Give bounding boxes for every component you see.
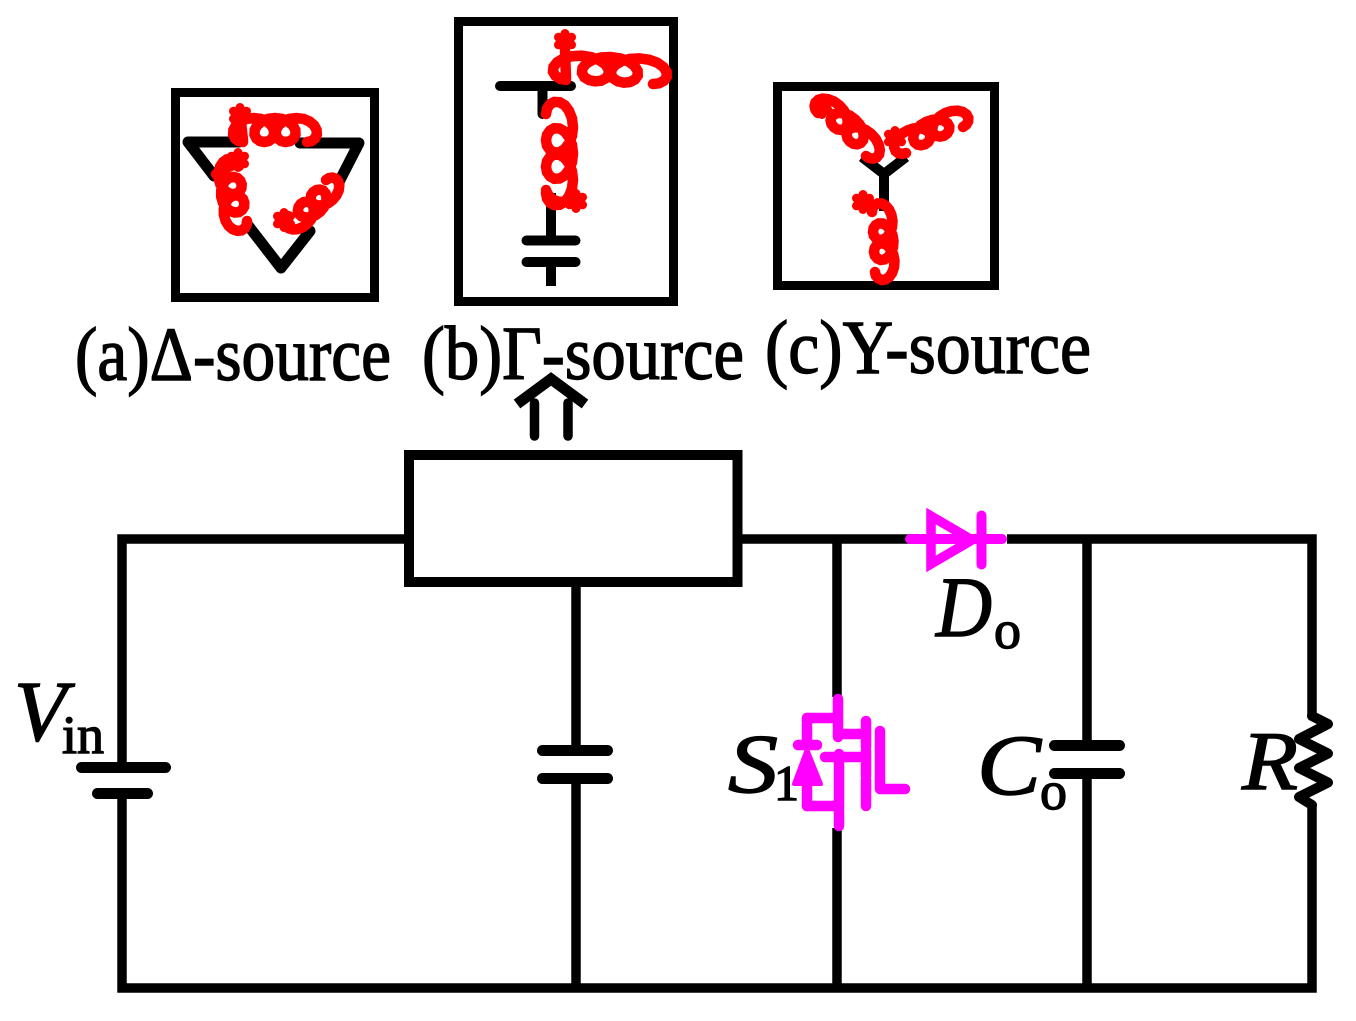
- svg-text:o: o: [994, 600, 1021, 660]
- svg-text:(a)Δ-source: (a)Δ-source: [75, 313, 391, 397]
- svg-text:in: in: [62, 705, 104, 765]
- svg-text:C: C: [977, 717, 1043, 813]
- svg-text:1: 1: [774, 755, 799, 811]
- svg-text:R: R: [1241, 715, 1298, 808]
- svg-text:(b)Γ-source: (b)Γ-source: [422, 312, 744, 396]
- svg-text:D: D: [935, 559, 992, 655]
- svg-text:S: S: [728, 718, 778, 811]
- svg-text:(c)Y-source: (c)Y-source: [765, 306, 1091, 390]
- svg-text:o: o: [1040, 761, 1067, 821]
